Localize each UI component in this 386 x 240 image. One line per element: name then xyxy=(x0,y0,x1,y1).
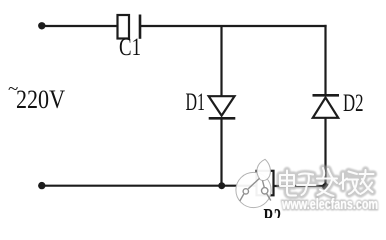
svg-text:220V: 220V xyxy=(16,84,65,114)
watermark logo spark path xyxy=(240,194,244,201)
watermark logo leaf xyxy=(257,159,271,180)
resistor R2 box xyxy=(257,171,274,196)
wire D1 branch lower xyxy=(220,117,222,186)
svg-text:C1: C1 xyxy=(119,34,141,61)
wire R2 box to D2 bottom xyxy=(273,185,326,187)
wire D2 branch upper xyxy=(324,25,326,96)
capacitor C1 body xyxy=(118,15,141,39)
svg-text:www.elecfans.com: www.elecfans.com xyxy=(281,197,378,213)
diode D1 xyxy=(209,96,236,118)
wire D1 branch upper xyxy=(220,26,222,97)
svg-text:R2: R2 xyxy=(264,205,282,219)
wire top-left from terminal to C1 xyxy=(42,25,117,27)
svg-text:D2: D2 xyxy=(343,90,364,117)
junction node D2/bottom rail xyxy=(322,183,329,190)
junction node D1/bottom rail xyxy=(218,182,225,189)
diode D2 xyxy=(313,95,340,118)
wire bottom-left from terminal to R2 box xyxy=(42,185,257,187)
watermark text 电子发烧友 (pseudo strokes) xyxy=(280,168,374,196)
watermark logo circle xyxy=(236,159,271,207)
wire D2 branch lower xyxy=(324,117,326,187)
terminal top-left xyxy=(38,22,45,29)
wire C1 to top-right corner xyxy=(140,25,327,27)
terminal bottom-left xyxy=(38,182,45,189)
svg-text:D1: D1 xyxy=(186,89,206,116)
